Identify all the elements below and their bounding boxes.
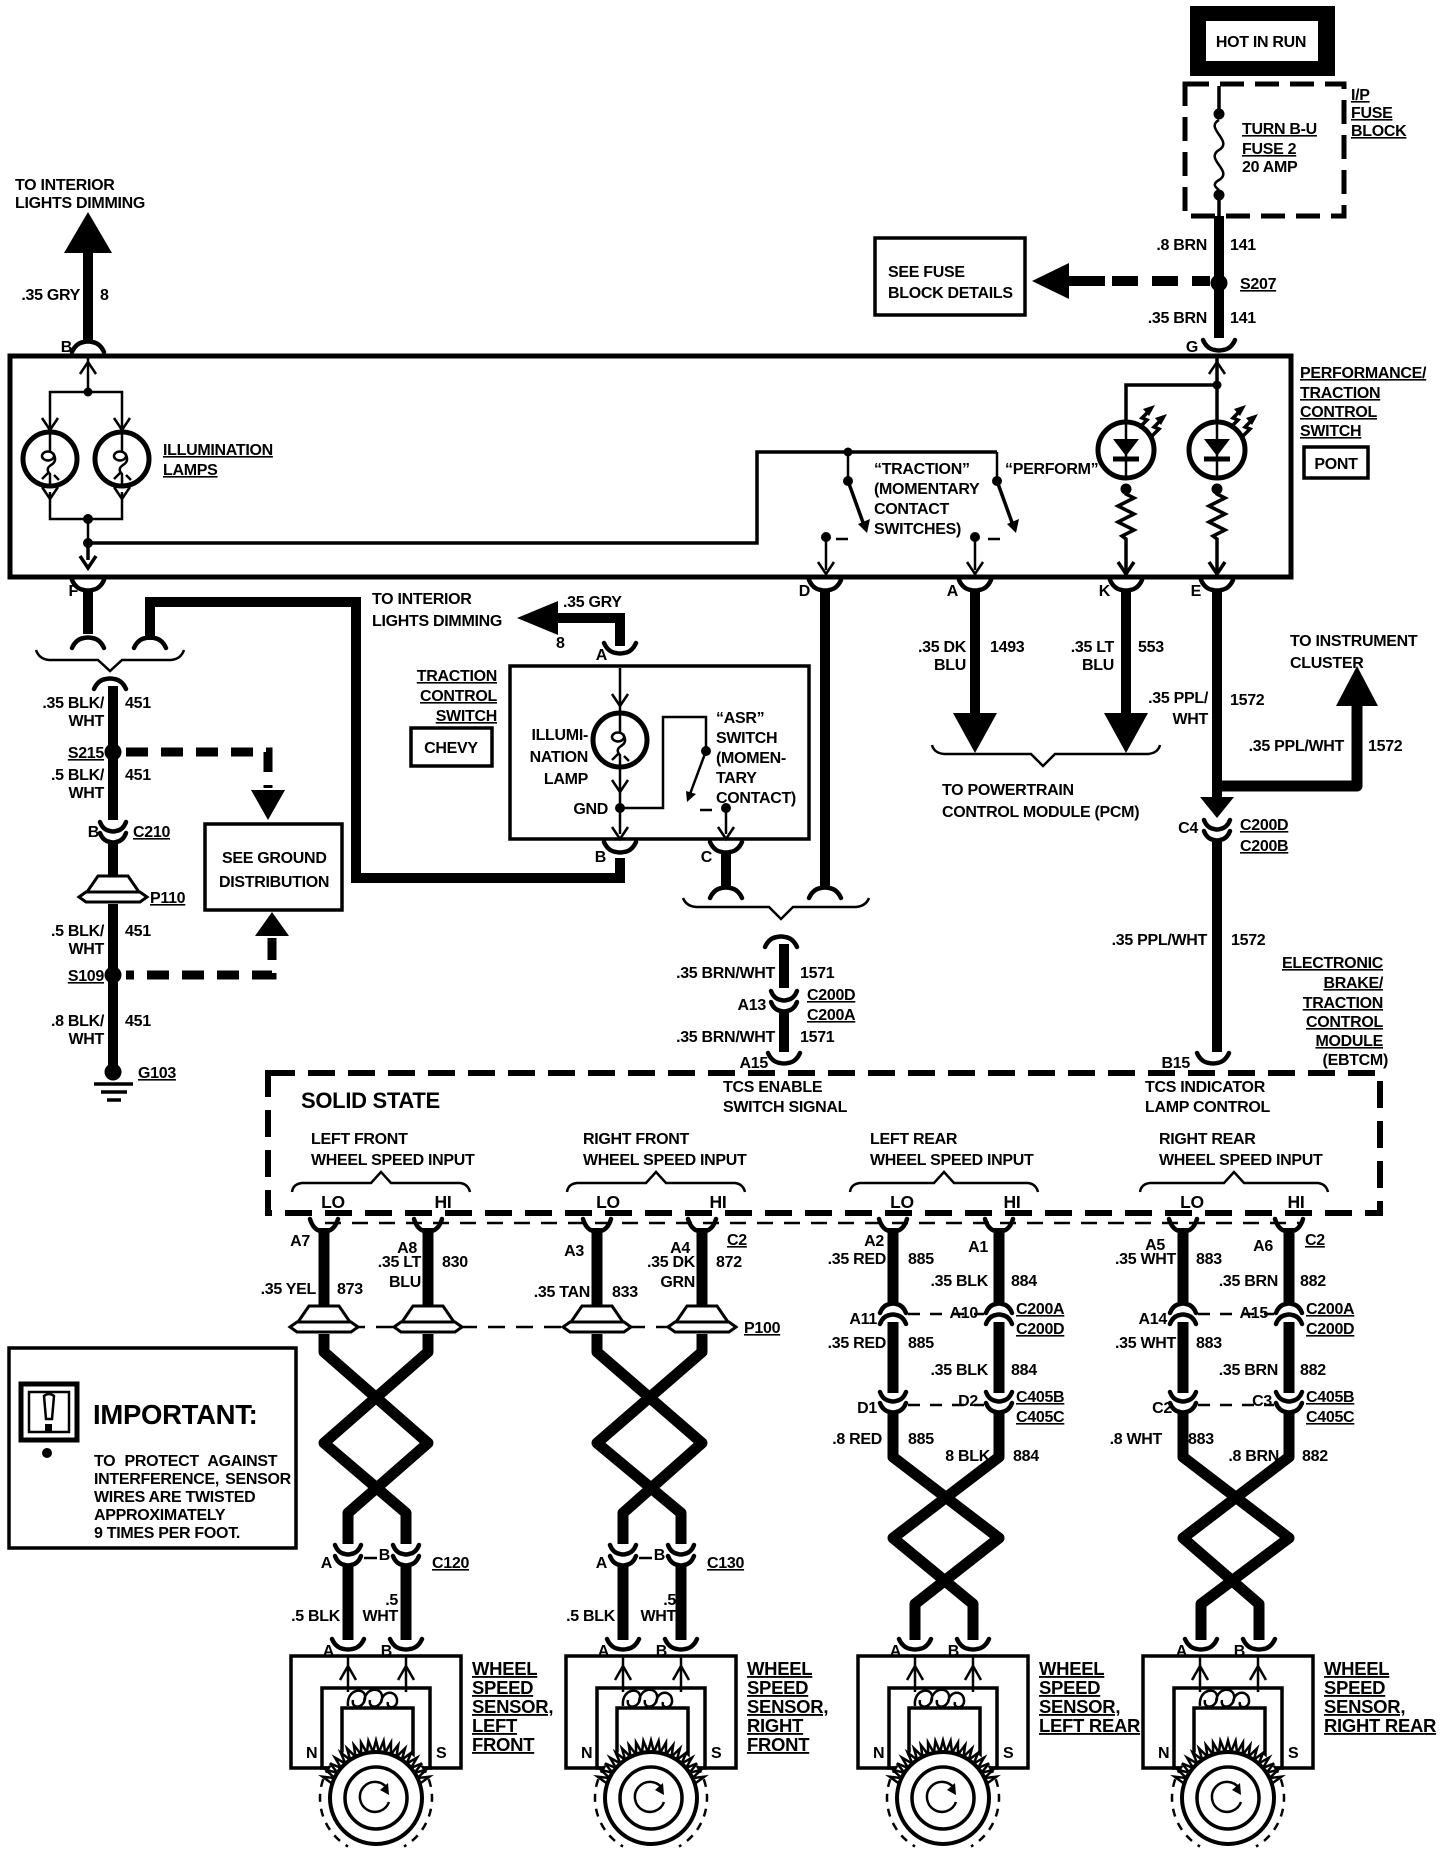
svg-text:.35 GRY: .35 GRY [563, 594, 622, 611]
svg-text:A6: A6 [1253, 1238, 1273, 1255]
brace joining C and D [683, 898, 869, 919]
svg-text:.35 BRN: .35 BRN [1219, 1362, 1278, 1379]
svg-text:FUSE: FUSE [1351, 105, 1393, 122]
svg-text:BRAKE/: BRAKE/ [1323, 975, 1383, 992]
wire to P110 [108, 842, 118, 876]
svg-text:.8 WHT: .8 WHT [1110, 1431, 1163, 1448]
svg-text:C3: C3 [1252, 1393, 1272, 1410]
LED feed from terminal G [1126, 358, 1225, 423]
svg-text:CONTROL: CONTROL [1306, 1014, 1384, 1031]
svg-text:WHT: WHT [68, 785, 104, 802]
svg-text:883: 883 [1196, 1251, 1222, 1268]
svg-text:C405C: C405C [1016, 1409, 1065, 1426]
svg-text:CONTROL: CONTROL [1300, 404, 1378, 421]
wire D down [820, 591, 830, 886]
fuse TURN B-U FUSE 2 20 AMP [1214, 86, 1317, 216]
svg-text:LEFT REAR: LEFT REAR [1039, 1715, 1140, 1736]
wire .35 BLK/WHT 451 [108, 686, 118, 746]
svg-text:“ASR”: “ASR” [716, 710, 764, 727]
svg-text:WHT: WHT [68, 1031, 104, 1048]
sensor terminals A B [899, 1639, 931, 1650]
svg-text:C2: C2 [727, 1232, 747, 1249]
svg-text:WHEEL: WHEEL [1039, 1658, 1104, 1679]
svg-text:WHT: WHT [362, 1608, 398, 1625]
wire .35 BRN 882 [1284, 1322, 1295, 1393]
svg-text:IMPORTANT:: IMPORTANT: [93, 1399, 258, 1430]
svg-text:451: 451 [125, 767, 151, 784]
svg-text:WHEEL: WHEEL [472, 1658, 537, 1679]
twisted pair left front [324, 1334, 428, 1544]
svg-text:885: 885 [908, 1251, 934, 1268]
svg-text:CONTROL MODULE (PCM): CONTROL MODULE (PCM) [942, 804, 1139, 821]
svg-text:C2: C2 [1152, 1400, 1172, 1417]
sensor terminals A B [607, 1639, 639, 1650]
grommet P100 [563, 1306, 631, 1332]
brace to PCM [932, 745, 1160, 766]
svg-text:LAMP: LAMP [544, 771, 589, 788]
svg-text:LO: LO [596, 1192, 620, 1212]
wire .35 BLK 884 [994, 1322, 1005, 1393]
svg-text:BLOCK: BLOCK [1351, 123, 1407, 140]
svg-text:885: 885 [908, 1431, 934, 1448]
svg-text:C200D: C200D [1240, 817, 1288, 834]
I/P fuse block dashed box [1185, 84, 1344, 216]
twisted pair right rear [1183, 1412, 1289, 1640]
splice S109 [105, 967, 122, 984]
illumination lamp left [23, 432, 77, 486]
tone wheel right rear [1172, 1741, 1284, 1850]
svg-text:“TRACTION”: “TRACTION” [874, 461, 970, 478]
svg-text:B: B [379, 1547, 390, 1564]
svg-text:SENSOR,: SENSOR, [1324, 1696, 1405, 1717]
svg-text:TRACTION: TRACTION [417, 668, 497, 685]
connector C120 [335, 1545, 361, 1566]
tone wheel left rear [887, 1741, 999, 1850]
svg-text:I/P: I/P [1351, 87, 1370, 104]
wheel speed sensor right front [566, 1656, 736, 1768]
svg-text:RIGHT REAR: RIGHT REAR [1324, 1715, 1436, 1736]
tone wheel right front [595, 1741, 707, 1850]
wire .35 BRN 882 [1284, 1240, 1295, 1302]
svg-text:TARY: TARY [716, 770, 757, 787]
wheel speed sensor left front [291, 1656, 461, 1768]
svg-text:BLOCK DETAILS: BLOCK DETAILS [888, 285, 1013, 302]
resistor below right LED [1209, 484, 1225, 575]
grommet P110 [79, 876, 147, 902]
svg-text:LEFT: LEFT [472, 1715, 518, 1736]
resistor below left LED [1118, 484, 1134, 575]
splice claw [94, 679, 126, 690]
wire .35 DK GRN 872 [697, 1240, 708, 1308]
connector C405 pins D1/D2 [880, 1392, 906, 1413]
svg-text:883: 883 [1188, 1431, 1214, 1448]
illumination lamp feed [612, 668, 628, 712]
svg-text:A: A [947, 583, 959, 600]
svg-text:SWITCHES): SWITCHES) [874, 521, 961, 538]
svg-text:.35 LT: .35 LT [378, 1254, 422, 1271]
svg-text:C: C [701, 849, 713, 866]
svg-text:WHEEL SPEED INPUT: WHEEL SPEED INPUT [583, 1152, 747, 1169]
svg-text:WIRES ARE TWISTED: WIRES ARE TWISTED [94, 1489, 255, 1506]
svg-text:1571: 1571 [800, 1029, 835, 1046]
svg-text:.35 YEL: .35 YEL [261, 1281, 317, 1298]
svg-text:LAMPS: LAMPS [163, 462, 218, 479]
svg-text:C405B: C405B [1306, 1389, 1354, 1406]
svg-text:C405C: C405C [1306, 1409, 1355, 1426]
svg-text:WHT: WHT [1172, 711, 1208, 728]
svg-text:SENSOR,: SENSOR, [1039, 1696, 1120, 1717]
svg-text:RIGHT REAR: RIGHT REAR [1159, 1131, 1256, 1148]
svg-text:LO: LO [321, 1192, 345, 1212]
svg-text:BLU: BLU [1082, 657, 1114, 674]
wire .35 WHT 883 [1178, 1240, 1189, 1302]
svg-text:C210: C210 [133, 824, 170, 841]
wire .35 LT BLU 830 [423, 1240, 434, 1308]
connector C4 [1200, 797, 1234, 818]
svg-text:882: 882 [1302, 1448, 1328, 1465]
pin A6 (C2) [1275, 1219, 1303, 1246]
svg-text:A2: A2 [864, 1233, 884, 1250]
svg-text:A13: A13 [738, 997, 767, 1014]
svg-text:HOT IN RUN: HOT IN RUN [1216, 34, 1306, 51]
svg-text:872: 872 [716, 1254, 742, 1271]
svg-text:1572: 1572 [1231, 932, 1266, 949]
svg-text:LO: LO [890, 1192, 914, 1212]
lamp bottom rail [42, 487, 130, 568]
svg-text:A1: A1 [968, 1239, 988, 1256]
svg-text:A: A [596, 1555, 608, 1572]
grommet P100 dashed line [292, 1326, 740, 1329]
svg-text:.35 GRY: .35 GRY [21, 287, 80, 304]
svg-text:884: 884 [1011, 1273, 1037, 1290]
svg-text:553: 553 [1138, 639, 1164, 656]
svg-text:D1: D1 [857, 1400, 877, 1417]
wheel speed sensor left rear [858, 1656, 1028, 1768]
svg-text:SEE GROUND: SEE GROUND [222, 850, 327, 867]
svg-text:884: 884 [1011, 1362, 1037, 1379]
label TRACTION CONTROL SWITCH [417, 668, 498, 725]
splice S207 [1211, 275, 1228, 292]
svg-text:451: 451 [125, 1013, 151, 1030]
svg-text:A10: A10 [950, 1305, 979, 1322]
LED lamp TRACTION [1098, 405, 1167, 478]
svg-text:“PERFORM”: “PERFORM” [1005, 461, 1098, 478]
wire .5 WHT [401, 1566, 412, 1640]
illumination lamp right [95, 432, 149, 486]
wire .5 WHT [676, 1566, 687, 1640]
twisted pair right front [597, 1334, 702, 1544]
svg-text:.35 PPL/: .35 PPL/ [1148, 690, 1209, 707]
svg-text:SENSOR,: SENSOR, [747, 1696, 828, 1717]
svg-text:885: 885 [908, 1335, 934, 1352]
wire .35 PPL/WHT 1572 [1212, 591, 1222, 797]
svg-text:DISTRIBUTION: DISTRIBUTION [219, 874, 329, 891]
svg-text:.8 RED: .8 RED [832, 1431, 882, 1448]
svg-text:LEFT FRONT: LEFT FRONT [311, 1131, 408, 1148]
svg-text:CLUSTER: CLUSTER [1290, 655, 1364, 672]
svg-text:BLU: BLU [389, 1274, 421, 1291]
svg-text:TO POWERTRAIN: TO POWERTRAIN [942, 782, 1074, 799]
wire .35 LT BLU 553 to PCM [1121, 591, 1131, 714]
svg-text:CONTACT): CONTACT) [716, 790, 796, 807]
svg-text:(EBTCM): (EBTCM) [1323, 1052, 1388, 1069]
label PERFORMANCE/TRACTION CONTROL SWITCH [1300, 365, 1427, 440]
svg-text:.35 BRN: .35 BRN [1148, 310, 1207, 327]
svg-text:K: K [1099, 583, 1111, 600]
svg-text:SPEED: SPEED [472, 1677, 533, 1698]
svg-text:.5: .5 [663, 1592, 676, 1609]
svg-text:A15: A15 [1240, 1305, 1269, 1322]
connector C200 pins A14/A15 [1170, 1304, 1196, 1325]
svg-text:C200A: C200A [1016, 1301, 1065, 1318]
wire .5 BLK [343, 1566, 354, 1640]
svg-text:.35 LT: .35 LT [1071, 639, 1115, 656]
svg-text:.35 RED: .35 RED [828, 1335, 886, 1352]
pin A8 [414, 1219, 442, 1246]
svg-text:A7: A7 [290, 1233, 310, 1250]
svg-text:B: B [595, 849, 606, 866]
svg-text:SPEED: SPEED [1324, 1677, 1385, 1698]
svg-text:.35 BLK: .35 BLK [931, 1273, 989, 1290]
wire .35 RED 885 [888, 1240, 899, 1302]
wire to interior lights dimming (terminal B) [15, 177, 145, 356]
svg-text:.35 DK: .35 DK [647, 1254, 696, 1271]
dashed link S215 to ground distribution [126, 752, 285, 820]
wire .35 TAN 833 [592, 1240, 603, 1308]
svg-text:WHT: WHT [68, 713, 104, 730]
illumination lamp [593, 713, 647, 767]
svg-text:B: B [88, 824, 99, 841]
tone wheel left front [320, 1741, 432, 1850]
svg-text:TO INTERIOR: TO INTERIOR [372, 591, 472, 608]
TRACTION momentary switch [818, 452, 870, 574]
wire F down [83, 591, 93, 634]
svg-text:G103: G103 [138, 1065, 176, 1082]
connector C210 pin B [100, 822, 126, 843]
wire .35 BRN 141 [1214, 288, 1224, 338]
sensor terminals A B [332, 1639, 364, 1650]
svg-text:882: 882 [1300, 1273, 1326, 1290]
svg-text:SWITCH SIGNAL: SWITCH SIGNAL [723, 1099, 848, 1116]
wheel speed sensor right rear [1143, 1656, 1313, 1768]
wire from CHEVY switch GND (long run) [150, 602, 620, 878]
HOT IN RUN box [1190, 6, 1335, 76]
svg-text:WHT: WHT [68, 941, 104, 958]
connector C200 pins A11/A10 [880, 1304, 906, 1325]
svg-text:.35 WHT: .35 WHT [1115, 1335, 1177, 1352]
wire .35 PPL/WHT 1572 [1212, 842, 1222, 1052]
svg-text:WHEEL: WHEEL [747, 1658, 812, 1679]
svg-text:SOLID STATE: SOLID STATE [301, 1088, 440, 1113]
svg-text:D: D [799, 583, 810, 600]
illumination lamps circuit inside box [42, 358, 130, 430]
svg-text:LO: LO [1180, 1192, 1204, 1212]
svg-text:830: 830 [442, 1254, 468, 1271]
left rear wheel speed input label [850, 1131, 1038, 1212]
svg-text:.5 BLK: .5 BLK [566, 1608, 616, 1625]
svg-text:ILLUMI-: ILLUMI- [531, 727, 588, 744]
svg-text:TCS INDICATOR: TCS INDICATOR [1145, 1079, 1266, 1096]
svg-text:.5: .5 [385, 1592, 398, 1609]
branch to instrument cluster [1213, 633, 1418, 786]
svg-text:.8 BLK/: .8 BLK/ [51, 1013, 105, 1030]
svg-text:C2: C2 [1305, 1232, 1325, 1249]
LED lamp PERFORM [1189, 405, 1258, 478]
svg-text:CONTROL: CONTROL [420, 688, 498, 705]
svg-text:C200D: C200D [1016, 1321, 1064, 1338]
svg-text:1572: 1572 [1230, 692, 1265, 709]
label I/P FUSE BLOCK [1351, 87, 1407, 140]
svg-text:.35 BLK: .35 BLK [931, 1362, 989, 1379]
wire .35 DK BLU 1493 to PCM [970, 591, 980, 714]
svg-text:WHT: WHT [640, 1608, 676, 1625]
svg-text:RIGHT: RIGHT [747, 1715, 804, 1736]
svg-text:TO INSTRUMENT: TO INSTRUMENT [1290, 633, 1418, 650]
wire .5 BLK [618, 1566, 629, 1640]
wire .35 RED 885 [888, 1322, 899, 1393]
svg-text:APPROXIMATELY: APPROXIMATELY [94, 1507, 226, 1524]
svg-text:873: 873 [337, 1281, 363, 1298]
svg-text:FRONT: FRONT [747, 1734, 810, 1755]
svg-text:(MOMENTARY: (MOMENTARY [874, 481, 980, 498]
splice S215 [105, 744, 122, 761]
svg-text:833: 833 [612, 1284, 638, 1301]
svg-text:LIGHTS DIMMING: LIGHTS DIMMING [15, 195, 145, 212]
svg-text:ILLUMINATION: ILLUMINATION [163, 442, 273, 459]
svg-text:C200D: C200D [807, 987, 855, 1004]
internal rail from lamps to switches [88, 452, 997, 543]
connector C200 pin A13 [771, 991, 797, 1012]
svg-text:MODULE: MODULE [1315, 1033, 1383, 1050]
lamp to GND [573, 768, 628, 839]
pin A3 [583, 1219, 611, 1246]
wire .5 BLK/WHT 451 [108, 758, 118, 820]
PERFORM momentary switch [967, 452, 1019, 574]
SEE GROUND DISTRIBUTION box [205, 824, 342, 910]
svg-text:8: 8 [100, 287, 109, 304]
svg-text:141: 141 [1230, 237, 1256, 254]
svg-text:WHEEL SPEED INPUT: WHEEL SPEED INPUT [870, 1152, 1034, 1169]
svg-text:G: G [1186, 339, 1198, 356]
connector C130 [610, 1545, 636, 1566]
ASR switch wiring [620, 717, 734, 839]
wire .35 BRN/WHT 1571 [779, 944, 789, 988]
svg-text:A14: A14 [1139, 1311, 1168, 1328]
dashed link ground distribution to S109 [126, 912, 289, 975]
svg-text:1571: 1571 [800, 965, 835, 982]
ground G103 [94, 1064, 176, 1101]
svg-text:20 AMP: 20 AMP [1242, 159, 1298, 176]
svg-text:SENSOR,: SENSOR, [472, 1696, 553, 1717]
svg-text:HI: HI [435, 1192, 452, 1212]
svg-text:WHEEL SPEED INPUT: WHEEL SPEED INPUT [1159, 1152, 1323, 1169]
svg-text:141: 141 [1230, 310, 1256, 327]
svg-text:TURN B-U: TURN B-U [1242, 121, 1317, 138]
PONT box [1304, 447, 1368, 478]
svg-text:BLU: BLU [934, 657, 966, 674]
svg-text:.5 BLK: .5 BLK [291, 1608, 341, 1625]
svg-text:SEE FUSE: SEE FUSE [888, 264, 965, 281]
svg-text:HI: HI [710, 1192, 727, 1212]
svg-text:NATION: NATION [530, 749, 588, 766]
pin A1 [985, 1219, 1013, 1246]
svg-text:FRONT: FRONT [472, 1734, 535, 1755]
svg-text:A3: A3 [564, 1243, 584, 1260]
svg-text:S207: S207 [1240, 276, 1277, 293]
svg-text:884: 884 [1013, 1448, 1039, 1465]
svg-text:.5 BLK/: .5 BLK/ [51, 767, 105, 784]
twisted pair left rear [893, 1412, 999, 1640]
svg-text:SPEED: SPEED [747, 1677, 808, 1698]
svg-text:TO INTERIOR: TO INTERIOR [15, 177, 115, 194]
svg-text:LIGHTS DIMMING: LIGHTS DIMMING [372, 613, 502, 630]
switch body box [510, 666, 809, 839]
svg-text:CONTACT: CONTACT [874, 501, 949, 518]
svg-text:.35 TAN: .35 TAN [534, 1284, 590, 1301]
svg-text:B15: B15 [1162, 1055, 1191, 1072]
svg-text:S215: S215 [68, 745, 105, 762]
dashed arrow to S207 [1032, 263, 1210, 299]
CHEVY box [411, 728, 492, 766]
svg-text:.35 BLK/: .35 BLK/ [42, 695, 104, 712]
svg-text:.35 PPL/WHT: .35 PPL/WHT [1112, 932, 1208, 949]
svg-text:GRN: GRN [660, 1274, 695, 1291]
svg-text:A11: A11 [849, 1311, 877, 1328]
connector face dashed line [325, 1222, 1300, 1225]
svg-text:TRACTION: TRACTION [1300, 385, 1380, 402]
svg-text:451: 451 [125, 923, 151, 940]
brace joining grounds [36, 650, 184, 671]
svg-text:.8 BRN: .8 BRN [1156, 237, 1207, 254]
wire to interior lights dimming (CHEVY A) [372, 591, 622, 652]
svg-text:C4: C4 [1178, 820, 1198, 837]
wire .35 BLK 884 [994, 1240, 1005, 1302]
svg-text:C200B: C200B [1240, 838, 1288, 855]
svg-text:.35 DK: .35 DK [918, 639, 967, 656]
svg-text:451: 451 [125, 695, 151, 712]
svg-text:C200A: C200A [807, 1007, 856, 1024]
svg-text:.8 BRN: .8 BRN [1228, 1448, 1279, 1465]
wire .35 YEL 873 [319, 1240, 330, 1308]
grommet P100 [290, 1306, 358, 1332]
svg-text:ELECTRONIC: ELECTRONIC [1282, 955, 1384, 972]
left front wheel speed input label [292, 1131, 475, 1212]
wire C down [721, 853, 731, 886]
svg-text:9 TIMES PER FOOT.: 9 TIMES PER FOOT. [94, 1525, 240, 1542]
svg-text:S109: S109 [68, 968, 105, 985]
svg-text:SWITCH: SWITCH [1300, 423, 1361, 440]
svg-text:A15: A15 [740, 1055, 769, 1072]
label EBTCM [1282, 955, 1388, 1069]
svg-text:C200D: C200D [1306, 1321, 1354, 1338]
svg-text:C120: C120 [432, 1555, 469, 1572]
connector C405 pins C2/C3 [1170, 1392, 1196, 1413]
svg-text:E: E [1191, 583, 1202, 600]
svg-text:.35 RED: .35 RED [828, 1251, 886, 1268]
svg-text:883: 883 [1196, 1335, 1222, 1352]
right rear wheel speed input label [1140, 1131, 1328, 1212]
svg-text:P100: P100 [744, 1320, 781, 1337]
svg-text:CHEVY: CHEVY [424, 740, 478, 757]
svg-text:LAMP CONTROL: LAMP CONTROL [1145, 1099, 1271, 1116]
svg-text:WHEEL: WHEEL [1324, 1658, 1389, 1679]
svg-text:SWITCH: SWITCH [436, 708, 497, 725]
wire .8 BLK/WHT 451 [108, 982, 118, 1066]
svg-text:TRACTION: TRACTION [1303, 995, 1383, 1012]
svg-text:882: 882 [1300, 1362, 1326, 1379]
svg-text:D2: D2 [958, 1393, 978, 1410]
svg-text:HI: HI [1288, 1192, 1305, 1212]
